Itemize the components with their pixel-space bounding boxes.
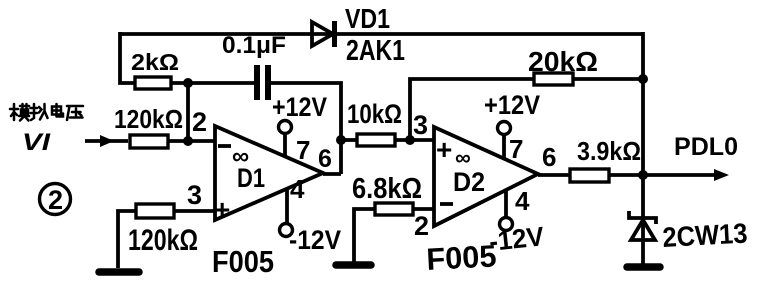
pin 4 stub D2 bbox=[504, 190, 508, 217]
label +12V (D2) bbox=[484, 90, 540, 120]
svg-text:4: 4 bbox=[290, 174, 305, 204]
op-amp D1 infinity gain mark bbox=[232, 143, 249, 170]
pin 7 stub D1 bbox=[283, 133, 287, 157]
op-amp D2 infinity gain mark bbox=[455, 145, 471, 170]
pin label 7 (D2) bbox=[509, 134, 523, 164]
wire top feedback rail bbox=[120, 32, 643, 36]
pin label 3 (D1) bbox=[187, 180, 202, 210]
svg-text:2: 2 bbox=[48, 185, 63, 215]
svg-text:6.8kΩ: 6.8kΩ bbox=[352, 173, 422, 205]
resistor R 120k ground body bbox=[136, 204, 174, 218]
label -12V (D2) bbox=[488, 221, 546, 257]
pin label 3 (D2) bbox=[413, 110, 428, 140]
pin label 2 (D1 inverting) bbox=[192, 107, 207, 137]
svg-text:D1: D1 bbox=[237, 163, 265, 193]
label -12V (D1) bbox=[289, 225, 341, 255]
label 2CW13 bbox=[662, 218, 749, 253]
node A junction dot (2k / cap / pin2 tie) bbox=[183, 78, 193, 88]
label 模拟电压 hand-drawn bbox=[10, 104, 83, 121]
svg-text:PDL0: PDL0 bbox=[674, 133, 738, 161]
wire zener to ground bbox=[641, 240, 645, 266]
svg-text:+12V: +12V bbox=[484, 90, 540, 120]
pin 7 stub D2 bbox=[502, 134, 506, 158]
wire 6.8k to ground bbox=[354, 209, 375, 262]
power terminal -12V D1 circle bbox=[280, 224, 293, 237]
pin 4 stub D1 bbox=[285, 189, 289, 224]
resistor R 120k input body bbox=[130, 135, 168, 148]
svg-text:6: 6 bbox=[542, 142, 556, 172]
pin label 7 (D1) bbox=[296, 135, 310, 165]
value label 3.9kΩ bbox=[577, 136, 641, 166]
wire 20k to right rail bbox=[573, 77, 643, 81]
wire output node down to zener bbox=[641, 175, 645, 240]
svg-text:F005: F005 bbox=[426, 238, 498, 277]
wire capacitor to D1 output vertical bbox=[270, 83, 341, 174]
svg-text:2: 2 bbox=[192, 107, 207, 137]
svg-text:VI: VI bbox=[22, 129, 52, 156]
power terminal +12V D2 circle bbox=[498, 122, 511, 135]
wire 120k to node to D1 pin 2 bbox=[168, 139, 215, 143]
value label 10kΩ bbox=[347, 99, 402, 129]
wire D1 output to vertical bbox=[323, 172, 341, 176]
svg-text:120kΩ: 120kΩ bbox=[128, 224, 198, 257]
wire D2 output bbox=[538, 173, 570, 177]
node pin2 junction dot bbox=[183, 136, 193, 146]
wire right rail vertical bbox=[641, 32, 645, 175]
figure number circled 2 bbox=[40, 184, 71, 216]
node output junction dot bbox=[638, 170, 648, 180]
wire D2 pin2 bbox=[413, 207, 434, 211]
svg-text:3: 3 bbox=[187, 180, 202, 210]
wire 20k feedback riser and rail bbox=[410, 79, 534, 140]
power terminal -12V D2 circle bbox=[500, 218, 513, 231]
label F005 (D2) bbox=[426, 238, 498, 277]
op-amp D2 triangle bbox=[434, 127, 538, 226]
svg-text:+12V: +12V bbox=[272, 92, 327, 122]
svg-text:2kΩ: 2kΩ bbox=[131, 49, 179, 75]
svg-text:F005: F005 bbox=[212, 244, 274, 279]
resistor R 20k body bbox=[534, 73, 573, 85]
capacitor C 0.1uF plates bbox=[254, 65, 271, 100]
value label 0.1µF bbox=[222, 32, 286, 59]
op-amp D1 triangle bbox=[215, 126, 323, 220]
label F005 (D1) bbox=[212, 244, 274, 279]
resistor R 2k body bbox=[135, 77, 171, 89]
svg-text:2AK1: 2AK1 bbox=[346, 35, 405, 67]
label PDL0 bbox=[674, 133, 738, 161]
wire left drop from top rail to 2k bbox=[120, 32, 135, 83]
svg-text:20kΩ: 20kΩ bbox=[528, 46, 598, 77]
diode VD1 cathode bar bbox=[332, 21, 337, 47]
input arrow VI bbox=[85, 135, 128, 147]
label 2AK1 bbox=[346, 35, 405, 67]
svg-text:0.1μF: 0.1μF bbox=[222, 32, 286, 59]
svg-text:3: 3 bbox=[413, 110, 428, 140]
ground G1 bbox=[99, 268, 139, 276]
svg-text:6: 6 bbox=[318, 145, 332, 173]
op-amp D2 minus sign bbox=[440, 202, 453, 206]
ground G2 bbox=[336, 261, 371, 269]
wire 120k to ground bbox=[118, 211, 136, 268]
diode VD1 triangle bbox=[312, 22, 333, 46]
output arrow PDL0 bbox=[643, 169, 729, 181]
label VD1 bbox=[345, 3, 390, 34]
svg-text:7: 7 bbox=[509, 134, 523, 164]
node 20k right rail junction dot bbox=[638, 74, 648, 84]
wire 3.9k to output node bbox=[609, 173, 643, 177]
wire 10k row left bbox=[341, 138, 357, 142]
wire node A to capacitor left plate bbox=[188, 81, 256, 85]
pin label 4 (D1) bbox=[290, 174, 305, 204]
zener VZ triangle bbox=[631, 220, 655, 240]
wire 10k to pin3 node bbox=[395, 138, 434, 142]
resistor R 6.8k body bbox=[375, 203, 413, 215]
wire 2k to node A bbox=[171, 81, 188, 85]
pin label 4 (D2) bbox=[515, 186, 530, 216]
pin label 6 (D1) bbox=[318, 145, 332, 173]
zener VZ cathode bar bbox=[629, 211, 656, 224]
node pin3 D2 junction dot bbox=[405, 135, 415, 145]
wire D1 pin3 bbox=[174, 209, 215, 213]
op-amp D1 name bbox=[237, 163, 265, 193]
svg-text:2CW13: 2CW13 bbox=[662, 218, 749, 253]
value label 120kΩ input bbox=[114, 104, 183, 134]
value label 120kΩ ground bbox=[128, 224, 198, 257]
svg-text:4: 4 bbox=[515, 186, 530, 216]
svg-text:3.9kΩ: 3.9kΩ bbox=[577, 136, 641, 166]
svg-text:2: 2 bbox=[414, 211, 429, 241]
op-amp D1 minus sign bbox=[218, 144, 231, 148]
svg-text:VD1: VD1 bbox=[345, 3, 390, 34]
svg-text:120kΩ: 120kΩ bbox=[114, 104, 183, 134]
power terminal +12V D1 circle bbox=[279, 121, 292, 134]
node junction dot at 10k tap bbox=[336, 135, 346, 145]
value label 20kΩ bbox=[528, 46, 598, 77]
ground G3 bbox=[627, 263, 660, 271]
resistor R 10k body bbox=[357, 134, 395, 146]
op-amp D1 plus sign bbox=[214, 194, 230, 225]
svg-text:10kΩ: 10kΩ bbox=[347, 99, 402, 129]
svg-text:+: + bbox=[436, 134, 452, 165]
svg-text:-12V: -12V bbox=[289, 225, 341, 255]
wire vertical node A to pin2 bbox=[186, 83, 190, 141]
svg-text:D2: D2 bbox=[453, 167, 485, 197]
value label 2kΩ bbox=[131, 49, 179, 75]
label VI input bbox=[22, 129, 52, 156]
op-amp D2 plus sign bbox=[436, 134, 452, 165]
svg-text:7: 7 bbox=[296, 135, 310, 165]
pin label 6 (D2) bbox=[542, 142, 556, 172]
value label 6.8kΩ bbox=[352, 173, 422, 205]
op-amp D2 name bbox=[453, 167, 485, 197]
pin label 2 (D2) bbox=[414, 211, 429, 241]
resistor R 3.9k body bbox=[570, 169, 609, 182]
label +12V (D1) bbox=[272, 92, 327, 122]
svg-text:-12V: -12V bbox=[488, 221, 546, 257]
svg-text:+: + bbox=[214, 194, 230, 225]
